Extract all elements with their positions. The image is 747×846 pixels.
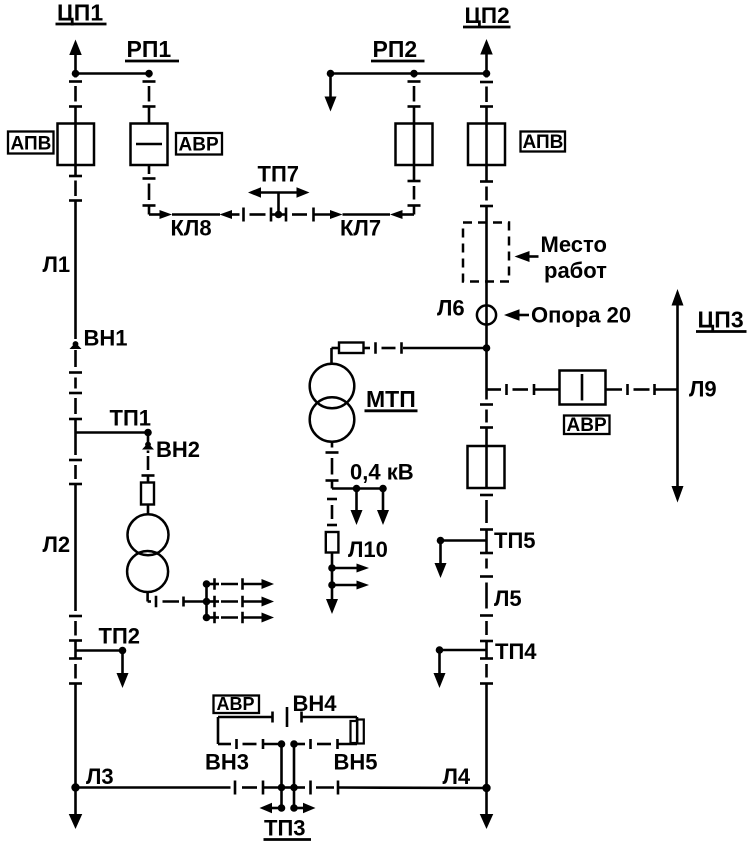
svg-text:АПВ: АПВ [523, 132, 564, 153]
svg-text:работ: работ [544, 258, 607, 283]
svg-text:ТП4: ТП4 [495, 639, 537, 664]
svg-text:ЦП3: ЦП3 [698, 307, 744, 333]
svg-text:Место: Место [541, 232, 607, 257]
svg-text:РП2: РП2 [373, 36, 418, 62]
svg-text:ЦП1: ЦП1 [57, 0, 103, 26]
svg-text:КЛ7: КЛ7 [340, 216, 381, 241]
svg-text:ЦП2: ЦП2 [465, 3, 510, 28]
svg-text:ВН4: ВН4 [293, 691, 338, 716]
svg-text:АВР: АВР [179, 135, 219, 156]
svg-text:ВН3: ВН3 [205, 750, 249, 775]
svg-text:Л10: Л10 [348, 537, 388, 562]
svg-text:Л4: Л4 [443, 764, 471, 789]
svg-text:0,4 кВ: 0,4 кВ [350, 460, 414, 485]
svg-text:МТП: МТП [366, 386, 416, 412]
svg-text:АВР: АВР [217, 694, 255, 714]
svg-text:ТП3: ТП3 [264, 816, 306, 841]
svg-text:Опора 20: Опора 20 [531, 303, 631, 328]
svg-text:Л1: Л1 [43, 252, 71, 277]
svg-text:РП1: РП1 [127, 36, 172, 62]
svg-text:Л2: Л2 [43, 532, 71, 557]
svg-text:АПВ: АПВ [11, 134, 52, 155]
svg-text:Л3: Л3 [86, 764, 114, 789]
svg-text:ТП5: ТП5 [494, 528, 536, 553]
svg-text:Л5: Л5 [494, 586, 522, 611]
svg-text:АВР: АВР [567, 415, 607, 436]
svg-text:ТП1: ТП1 [110, 406, 152, 431]
svg-text:Л6: Л6 [437, 296, 465, 321]
svg-text:ТП7: ТП7 [258, 162, 300, 187]
svg-text:ВН1: ВН1 [84, 326, 128, 351]
svg-text:ВН2: ВН2 [156, 437, 200, 462]
svg-text:Л9: Л9 [689, 377, 717, 402]
svg-text:КЛ8: КЛ8 [171, 216, 212, 241]
svg-text:ТП2: ТП2 [99, 624, 141, 649]
svg-text:ВН5: ВН5 [334, 750, 378, 775]
